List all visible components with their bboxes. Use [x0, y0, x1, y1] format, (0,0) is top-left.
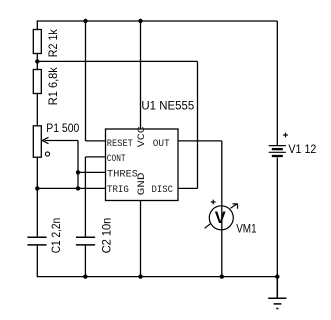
wire GND vertical [140, 201, 142, 277]
wire CONT horizontal [86, 156, 106, 158]
svg-text:R2 1k: R2 1k [46, 28, 60, 57]
node battery/ground [275, 274, 279, 278]
wire DISC vertical [197, 61, 199, 188]
wire P1 wiper horizontal [45, 140, 79, 142]
wire R1 top lead [36, 61, 38, 69]
node R2/R1 [35, 59, 39, 63]
wire DISC horizontal [178, 187, 198, 189]
svg-text:TRIG: TRIG [107, 185, 129, 196]
svg-text:C1 2,2n: C1 2,2n [49, 218, 63, 254]
wire node B horizontal (R2 bottom to DISC) [37, 60, 197, 62]
node wiper/THRES [76, 170, 80, 174]
wire R1 bottom lead to P1 [36, 94, 38, 126]
voltmeter VM1 circle [209, 206, 233, 230]
svg-text:VM1: VM1 [236, 222, 257, 236]
resistor R2 [33, 30, 41, 54]
potentiometer P1 [33, 126, 41, 157]
wire TRIG horizontal [37, 187, 105, 189]
wire top rail [37, 20, 278, 22]
wire C1 top lead [36, 188, 38, 236]
ground symbol [268, 277, 286, 309]
wire RESET vertical [85, 21, 87, 141]
node top-VCC [138, 19, 142, 23]
wire P1 bottom lead [36, 157, 38, 188]
wire VCC vertical [140, 21, 142, 129]
wire P1 wiper vertical [77, 141, 79, 189]
voltmeter plus sign [211, 200, 216, 205]
voltmeter VM1 arrow tail [205, 224, 211, 229]
op IC U1 NE555 box [106, 129, 179, 201]
svg-text:RESET: RESET [107, 139, 133, 150]
svg-text:CONT: CONT [107, 154, 126, 165]
node wiper/TRIG [76, 186, 80, 190]
svg-text:C2 10n: C2 10n [100, 218, 114, 254]
node P1/TRIG [35, 186, 39, 190]
potentiometer terminal circle [45, 152, 49, 156]
wire C2 bottom lead [84, 245, 86, 277]
svg-text:V1 12: V1 12 [288, 142, 316, 156]
svg-text:P1 500: P1 500 [46, 121, 79, 135]
wire R2 bottom lead [36, 54, 38, 62]
wire C1 bottom lead [36, 245, 38, 277]
wire OUT horizontal [178, 140, 222, 142]
svg-text:DISC: DISC [152, 185, 174, 196]
svg-text:V: V [215, 209, 226, 227]
svg-text:GND: GND [137, 172, 148, 195]
node C2/bottom [83, 274, 87, 278]
wire battery top lead [276, 21, 278, 145]
wire bottom rail [37, 276, 278, 278]
battery plus sign [283, 133, 288, 138]
svg-text:THRES: THRES [107, 169, 138, 180]
voltmeter wire vertical (OUT to bottom rail) [221, 141, 223, 277]
voltmeter VM1 arrow head segment [230, 204, 237, 209]
voltmeter wire through circle [221, 206, 223, 230]
node GND/bottom [138, 274, 142, 278]
resistor R1 [33, 70, 41, 94]
potentiometer wiper arrowhead [42, 137, 49, 143]
node top-RESET [83, 19, 87, 23]
battery V1 [269, 146, 286, 156]
svg-text:OUT: OUT [153, 139, 170, 150]
svg-text:R1 6,8k: R1 6,8k [46, 66, 60, 105]
svg-text:VCC: VCC [137, 126, 148, 147]
capacitor C2 [76, 237, 95, 245]
wire CONT vertical to C2 [84, 157, 86, 237]
capacitor C1 [27, 237, 46, 245]
wire RESET horizontal [86, 140, 106, 142]
node VM1/bottom [220, 274, 224, 278]
wire THRES horizontal [78, 171, 106, 173]
wire battery bottom lead [276, 158, 278, 277]
wire R2 top lead [36, 21, 38, 30]
svg-text:U1 NE555: U1 NE555 [141, 99, 194, 113]
